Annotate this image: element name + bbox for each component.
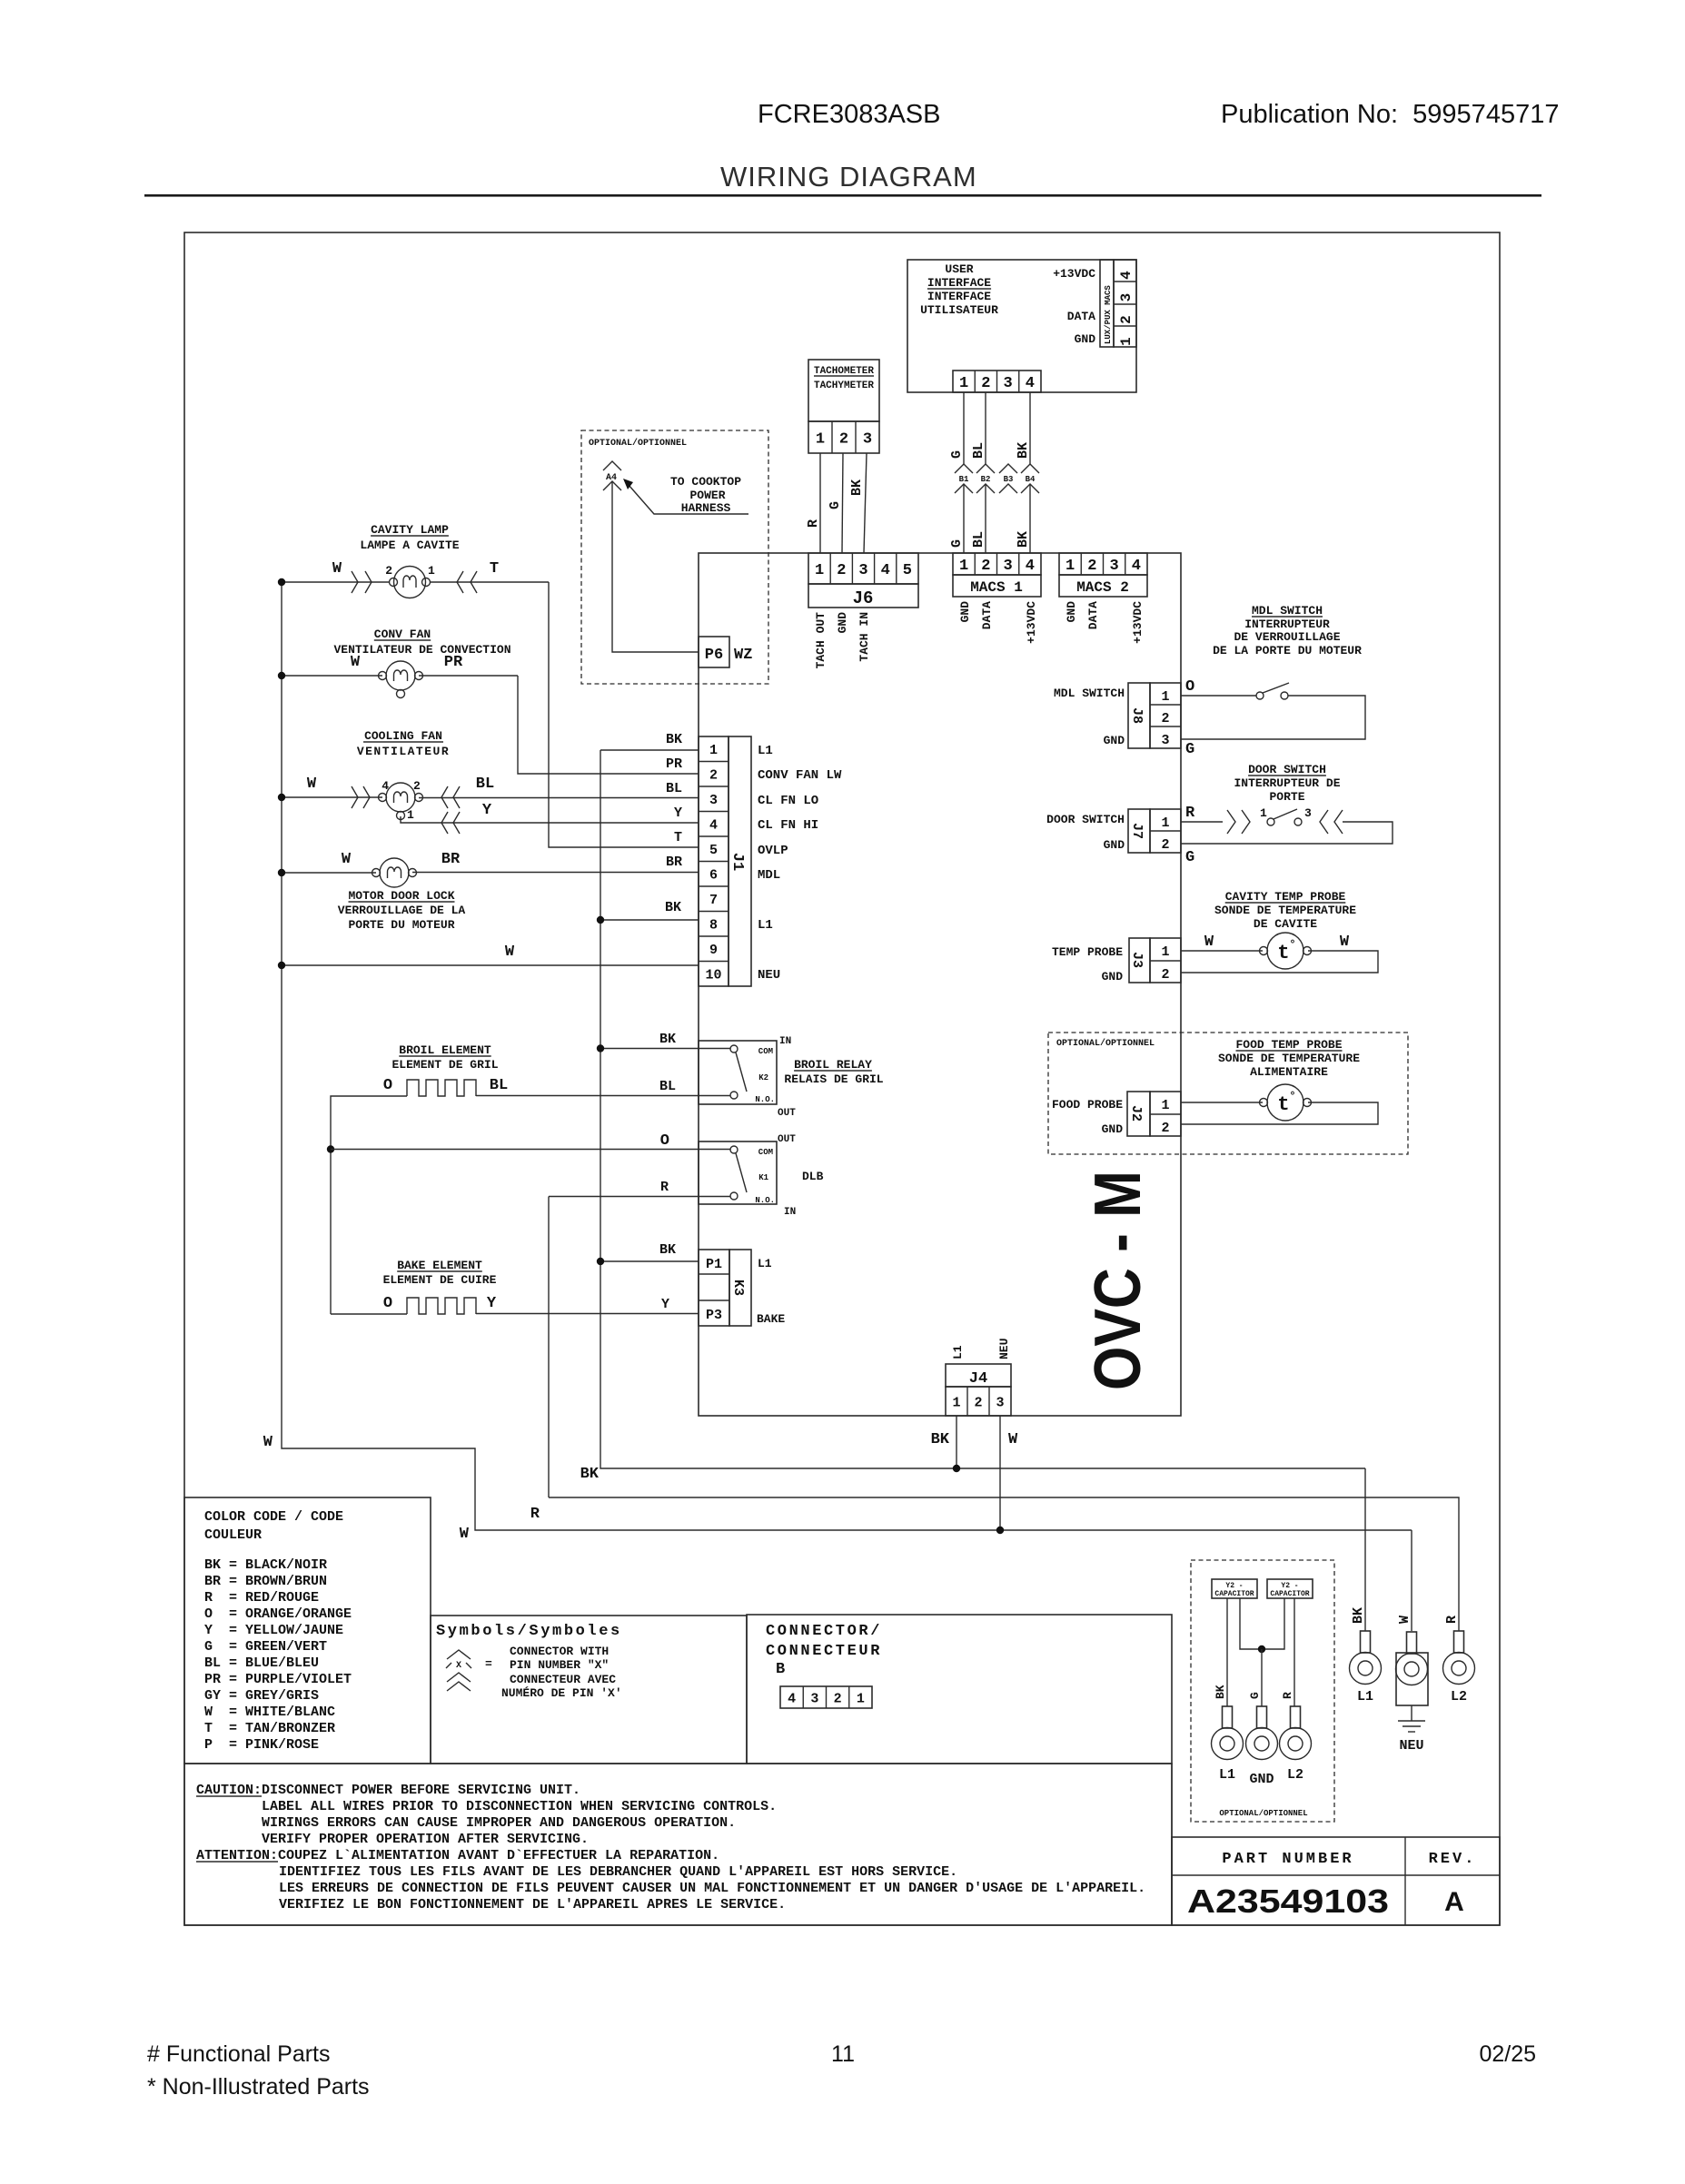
- svg-text:COOLING FAN: COOLING FAN: [364, 729, 442, 743]
- svg-text:SONDE DE TEMPERATURE: SONDE DE TEMPERATURE: [1214, 904, 1356, 917]
- svg-text:5: 5: [903, 562, 912, 579]
- wire bake element left: [331, 1313, 407, 1315]
- connector chevrons on cavity lamp left: [352, 571, 358, 593]
- wire BK to MACS1 pin4: [1029, 484, 1031, 553]
- svg-text:LES ERREURS DE CONNECTION DE F: LES ERREURS DE CONNECTION DE FILS PEUVEN…: [279, 1881, 1145, 1896]
- svg-text:3: 3: [1110, 558, 1119, 575]
- svg-text:BROIL ELEMENT: BROIL ELEMENT: [399, 1043, 491, 1057]
- svg-text:PART NUMBER: PART NUMBER: [1222, 1851, 1353, 1868]
- leader arrow to cooktop harness: [629, 485, 748, 514]
- svg-text:W: W: [1204, 934, 1214, 951]
- svg-text:O: O: [1185, 678, 1194, 696]
- svg-text:A: A: [1444, 1887, 1464, 1917]
- svg-text:BR = BROWN/BRUN: BR = BROWN/BRUN: [204, 1574, 327, 1589]
- svg-text:W: W: [307, 776, 317, 793]
- svg-text:+13VDC: +13VDC: [1131, 601, 1145, 644]
- svg-text:1: 1: [1161, 689, 1169, 705]
- svg-text:2: 2: [1161, 1121, 1169, 1136]
- conv fan circuit wire: [282, 675, 382, 677]
- svg-text:4: 4: [1026, 558, 1035, 575]
- svg-text:3: 3: [996, 1395, 1004, 1410]
- svg-text:B: B: [776, 1661, 785, 1678]
- svg-text:BL: BL: [971, 531, 986, 548]
- node junction W bus J4: [996, 1527, 1004, 1534]
- svg-text:BL: BL: [971, 442, 986, 459]
- caution box: [184, 1764, 1172, 1925]
- svg-text:P1: P1: [706, 1257, 722, 1272]
- connector MACS 2: [1059, 553, 1147, 575]
- svg-text:R: R: [530, 1506, 540, 1523]
- connector chevrons on cavity lamp right: [457, 571, 463, 593]
- svg-text:L1: L1: [951, 1345, 965, 1359]
- svg-text:L1: L1: [1219, 1767, 1235, 1783]
- svg-text:1: 1: [1161, 815, 1169, 831]
- svg-text:6: 6: [709, 868, 718, 884]
- svg-text:G: G: [1185, 741, 1194, 758]
- svg-text:2: 2: [839, 431, 848, 449]
- wire BK bus down to L1 terminal: [1364, 1468, 1366, 1631]
- svg-text:4: 4: [1132, 558, 1141, 575]
- svg-text:O = ORANGE/ORANGE: O = ORANGE/ORANGE: [204, 1606, 352, 1622]
- svg-text:B2: B2: [981, 475, 991, 484]
- svg-text:W: W: [1008, 1431, 1018, 1448]
- svg-text:W: W: [332, 560, 342, 578]
- svg-text:W: W: [460, 1526, 470, 1543]
- svg-text:OVC - M: OVC - M: [1082, 1171, 1155, 1390]
- svg-text:4: 4: [1026, 375, 1035, 392]
- svg-text:DE CAVITE: DE CAVITE: [1254, 917, 1317, 931]
- svg-text:MDL SWITCH: MDL SWITCH: [1252, 604, 1323, 618]
- svg-text:NUMÉRO DE PIN 'X': NUMÉRO DE PIN 'X': [501, 1686, 622, 1700]
- connector J8: [1128, 683, 1150, 748]
- wire BL from UI pin2: [985, 392, 986, 464]
- svg-text:COM: COM: [758, 1148, 773, 1157]
- svg-text:BL = BLUE/BLEU: BL = BLUE/BLEU: [204, 1655, 319, 1671]
- svg-text:11: 11: [831, 2041, 855, 2067]
- svg-text:3: 3: [858, 562, 867, 579]
- svg-text:T = TAN/BRONZER: T = TAN/BRONZER: [204, 1721, 335, 1736]
- svg-text:Y: Y: [674, 805, 682, 821]
- control board OVC-M outline: [699, 553, 1181, 1416]
- terminal GND optional: [1257, 1706, 1267, 1728]
- wire G from UI pin1: [963, 392, 965, 464]
- svg-text:GY = GREY/GRIS: GY = GREY/GRIS: [204, 1688, 319, 1704]
- node junction BK K2: [597, 1044, 604, 1052]
- svg-text:BAKE: BAKE: [757, 1312, 785, 1326]
- wire O to K1 COM: [331, 1149, 730, 1151]
- svg-text:5: 5: [709, 843, 718, 858]
- svg-text:J8: J8: [1129, 707, 1145, 724]
- svg-text:1: 1: [1161, 944, 1169, 960]
- wire R bus down to L2 terminal: [549, 1497, 1459, 1631]
- svg-text:MOTOR DOOR LOCK: MOTOR DOOR LOCK: [348, 889, 454, 903]
- svg-text:HARNESS: HARNESS: [681, 501, 731, 515]
- svg-text:PORTE DU MOTEUR: PORTE DU MOTEUR: [348, 918, 454, 932]
- wire from A4 to P6: [612, 481, 699, 652]
- svg-text:J4: J4: [969, 1370, 987, 1388]
- connector LUX/PUX MACS on user interface: [1100, 260, 1114, 347]
- black BK bus wire: [600, 750, 1365, 1468]
- svg-text:G = GREEN/VERT: G = GREEN/VERT: [204, 1639, 327, 1655]
- svg-text:2: 2: [981, 558, 990, 575]
- wire W bus to J1 pin10: [282, 964, 699, 966]
- svg-text:K1: K1: [758, 1173, 768, 1182]
- svg-text:CL FN LO: CL FN LO: [758, 794, 818, 808]
- svg-text:CONV FAN LW: CONV FAN LW: [758, 768, 842, 783]
- svg-text:N.O.: N.O.: [755, 1196, 775, 1205]
- svg-text:NEU: NEU: [1399, 1738, 1423, 1754]
- svg-text:L1: L1: [758, 918, 773, 933]
- svg-text:OPTIONAL/OPTIONNEL: OPTIONAL/OPTIONNEL: [1219, 1809, 1307, 1818]
- optional cooktop harness dashed box: [581, 430, 768, 684]
- svg-text:BK: BK: [659, 1242, 676, 1258]
- svg-text:BK: BK: [665, 900, 681, 915]
- wire BK bus to K3 P1: [600, 1260, 699, 1262]
- svg-text:2: 2: [1087, 558, 1096, 575]
- svg-text:8: 8: [709, 918, 718, 934]
- svg-text:1: 1: [816, 431, 825, 449]
- connector B3: [999, 464, 1017, 473]
- svg-text:VERIFY PROPER OPERATION AFTER: VERIFY PROPER OPERATION AFTER SERVICING.: [262, 1832, 589, 1847]
- svg-text:USER: USER: [945, 262, 973, 276]
- svg-text:GND: GND: [1249, 1772, 1274, 1787]
- svg-text:4: 4: [788, 1691, 796, 1706]
- svg-text:3: 3: [1004, 558, 1013, 575]
- svg-text:L1: L1: [1357, 1689, 1373, 1705]
- svg-text:3: 3: [1304, 806, 1312, 820]
- svg-text:ALIMENTAIRE: ALIMENTAIRE: [1250, 1065, 1328, 1079]
- svg-text:BL: BL: [490, 1077, 508, 1094]
- wire T cavity lamp to J1 pin5: [549, 582, 699, 847]
- terminal L2: [1454, 1631, 1464, 1653]
- svg-text:DATA: DATA: [1067, 310, 1095, 323]
- svg-text:°: °: [1289, 1090, 1295, 1102]
- svg-text:R = RED/ROUGE: R = RED/ROUGE: [204, 1590, 319, 1606]
- svg-text:J1: J1: [729, 853, 746, 871]
- wire capacitor1 to GND junction: [1240, 1598, 1284, 1649]
- svg-text:COULEUR: COULEUR: [204, 1527, 262, 1543]
- svg-text:GND: GND: [1102, 970, 1124, 983]
- user interface pin strip 1-4: [953, 371, 1041, 392]
- wire R to K1 N.O.: [548, 1197, 550, 1498]
- svg-text:INTERFACE: INTERFACE: [927, 276, 991, 290]
- svg-text:Y: Y: [661, 1297, 669, 1312]
- wire G tach pin2 to J6 pin2: [842, 453, 843, 553]
- svg-text:2: 2: [974, 1395, 982, 1410]
- connector J4: [946, 1364, 1011, 1387]
- svg-text:LABEL ALL WIRES PRIOR TO DISCO: LABEL ALL WIRES PRIOR TO DISCONNECTION W…: [262, 1799, 777, 1814]
- svg-text:DATA: DATA: [1086, 601, 1100, 629]
- svg-text:PORTE: PORTE: [1269, 790, 1304, 804]
- svg-text:DATA: DATA: [980, 601, 994, 629]
- svg-text:Y = YELLOW/JAUNE: Y = YELLOW/JAUNE: [204, 1623, 343, 1638]
- node junction door lock on W bus: [278, 869, 285, 876]
- cooling fan circuit wire: [282, 796, 382, 798]
- wire PR conv fan to J1 pin2: [518, 676, 699, 774]
- svg-text:NEU: NEU: [997, 1339, 1011, 1359]
- svg-text:R: R: [1444, 1616, 1460, 1624]
- svg-text:DE VERROUILLAGE: DE VERROUILLAGE: [1234, 630, 1340, 644]
- svg-text:G: G: [949, 450, 965, 459]
- connector B4: [1021, 464, 1039, 473]
- wire W bus down to NEU terminal: [1411, 1530, 1412, 1631]
- svg-text:ELEMENT DE CUIRE: ELEMENT DE CUIRE: [383, 1273, 497, 1287]
- svg-text:P = PINK/ROSE: P = PINK/ROSE: [204, 1737, 319, 1753]
- svg-text:TACH IN: TACH IN: [857, 612, 871, 662]
- svg-text:G: G: [949, 539, 965, 548]
- svg-text:BL: BL: [659, 1079, 676, 1094]
- svg-text:R: R: [1185, 805, 1195, 822]
- wire BK tach pin3 to J6 pin3: [864, 453, 867, 553]
- wire Y bake element to K3 P3: [476, 1313, 699, 1315]
- svg-text:B3: B3: [1004, 475, 1014, 484]
- svg-text:MDL SWITCH: MDL SWITCH: [1054, 687, 1125, 700]
- svg-text:9: 9: [709, 943, 718, 958]
- svg-text:BK: BK: [1016, 531, 1031, 548]
- svg-text:BK: BK: [1214, 1685, 1227, 1699]
- node junction BK bus J4: [953, 1465, 960, 1472]
- svg-text:INTERFACE: INTERFACE: [927, 290, 991, 303]
- svg-text:CONNECTOR/: CONNECTOR/: [766, 1623, 882, 1640]
- svg-text:O: O: [660, 1132, 669, 1150]
- title rule: [144, 194, 1541, 197]
- svg-text:VENTILATEUR: VENTILATEUR: [357, 745, 450, 758]
- svg-text:N.O.: N.O.: [755, 1095, 775, 1104]
- svg-text:1: 1: [1118, 337, 1135, 346]
- svg-text:MACS 1: MACS 1: [970, 579, 1023, 596]
- svg-text:Publication No: 5995745717: Publication No: 5995745717: [1221, 100, 1559, 129]
- svg-text:BROIL RELAY: BROIL RELAY: [794, 1058, 872, 1072]
- svg-text:WIRINGS ERRORS CAN CAUSE IMPRO: WIRINGS ERRORS CAN CAUSE IMPROPER AND DA…: [262, 1815, 736, 1831]
- svg-text:4: 4: [881, 562, 890, 579]
- relay K3 bake relay block: [699, 1250, 729, 1326]
- terminal NEU with ground: [1396, 1653, 1428, 1705]
- wire G to MACS1 pin1: [963, 484, 965, 553]
- connector J1: [699, 736, 729, 986]
- svg-text:COLOR CODE / CODE: COLOR CODE / CODE: [204, 1509, 343, 1525]
- svg-text:1: 1: [1066, 558, 1075, 575]
- node junction conv fan on W bus: [278, 672, 285, 679]
- svg-text:K2: K2: [758, 1073, 768, 1082]
- svg-text:L2: L2: [1451, 1689, 1467, 1705]
- svg-text:TO COOKTOP: TO COOKTOP: [670, 475, 741, 489]
- svg-text:BL: BL: [476, 776, 494, 793]
- svg-text:J3: J3: [1129, 952, 1145, 968]
- svg-text:FOOD PROBE: FOOD PROBE: [1052, 1098, 1123, 1112]
- svg-text:BK: BK: [1016, 442, 1031, 459]
- connector chevrons cooling fan right: [441, 786, 448, 808]
- svg-text:PR = PURPLE/VIOLET: PR = PURPLE/VIOLET: [204, 1672, 352, 1687]
- svg-text:2: 2: [413, 779, 421, 793]
- svg-text:VERIFIEZ LE BON FONCTIONNEMENT: VERIFIEZ LE BON FONCTIONNEMENT DE L'APPA…: [279, 1897, 786, 1912]
- svg-text:CAPACITOR: CAPACITOR: [1214, 1590, 1254, 1598]
- svg-text:°: °: [1289, 938, 1295, 951]
- svg-text:L2: L2: [1287, 1767, 1303, 1783]
- svg-text:G: G: [828, 501, 843, 509]
- svg-text:1: 1: [709, 743, 718, 758]
- svg-text:CONNECTOR WITH: CONNECTOR WITH: [510, 1645, 609, 1658]
- svg-text:W: W: [505, 944, 515, 961]
- svg-text:O: O: [383, 1077, 392, 1094]
- connector P6: [699, 637, 729, 667]
- svg-text:L1: L1: [758, 744, 773, 758]
- svg-text:LUX/PUX MACS: LUX/PUX MACS: [1104, 285, 1113, 344]
- svg-text:CONNECTEUR: CONNECTEUR: [766, 1643, 882, 1660]
- connector J6: [808, 553, 918, 584]
- svg-text:GND: GND: [1104, 838, 1125, 852]
- svg-text:VERROUILLAGE DE LA: VERROUILLAGE DE LA: [338, 904, 466, 917]
- svg-text:BR: BR: [441, 851, 461, 868]
- node junction capacitor GND: [1258, 1645, 1265, 1653]
- svg-text:OUT: OUT: [778, 1134, 796, 1145]
- connector A4: [603, 461, 621, 470]
- svg-text:R: R: [1281, 1692, 1294, 1699]
- svg-text:BK: BK: [666, 732, 682, 747]
- svg-text:2: 2: [981, 375, 990, 392]
- svg-text:J6: J6: [853, 588, 874, 608]
- svg-text:P6: P6: [705, 647, 723, 664]
- terminal L1: [1361, 1631, 1371, 1653]
- bake element symbol: [407, 1298, 476, 1314]
- connector chevrons cooling fan left: [352, 786, 358, 808]
- svg-text:OVLP: OVLP: [758, 844, 788, 858]
- symbol connector with pin number X: [447, 1650, 471, 1659]
- svg-text:SONDE DE TEMPERATURE: SONDE DE TEMPERATURE: [1218, 1052, 1360, 1065]
- svg-text:BK: BK: [1351, 1607, 1366, 1624]
- capacitor Y2 number 2: [1267, 1579, 1313, 1598]
- svg-text:DOOR SWITCH: DOOR SWITCH: [1248, 763, 1326, 776]
- svg-text:10: 10: [705, 968, 721, 983]
- wire broil element to K2 N.O.: [331, 1096, 407, 1314]
- svg-text:4: 4: [709, 818, 718, 834]
- svg-text:BL: BL: [666, 781, 682, 796]
- svg-text:OPTIONAL/OPTIONNEL: OPTIONAL/OPTIONNEL: [1056, 1038, 1155, 1049]
- svg-text:W = WHITE/BLANC: W = WHITE/BLANC: [204, 1705, 335, 1720]
- svg-text:CAPACITOR: CAPACITOR: [1270, 1590, 1309, 1598]
- svg-text:INTERRUPTEUR: INTERRUPTEUR: [1244, 618, 1330, 631]
- connector chevrons on Y wire: [441, 812, 448, 834]
- node junction W bus pin10: [278, 962, 285, 969]
- svg-text:GND: GND: [836, 612, 849, 634]
- motor door lock symbol: [380, 858, 409, 887]
- svg-text:IDENTIFIEZ TOUS LES FILS AVANT: IDENTIFIEZ TOUS LES FILS AVANT DE LES DE…: [279, 1864, 957, 1880]
- svg-text:CONNECTEUR AVEC: CONNECTEUR AVEC: [510, 1673, 616, 1686]
- svg-text:G: G: [1248, 1692, 1262, 1699]
- svg-text:WIRING DIAGRAM: WIRING DIAGRAM: [720, 161, 977, 193]
- svg-text:3: 3: [1118, 293, 1135, 302]
- cavity temp probe circuit: [1181, 950, 1263, 952]
- svg-text:O: O: [383, 1295, 392, 1312]
- wire BK to J1 pin1: [600, 749, 699, 751]
- svg-text:P3: P3: [706, 1308, 722, 1323]
- svg-text:BAKE ELEMENT: BAKE ELEMENT: [397, 1259, 482, 1272]
- svg-text:BK = BLACK/NOIR: BK = BLACK/NOIR: [204, 1557, 327, 1573]
- svg-text:NEU: NEU: [758, 968, 780, 983]
- svg-text:* Non-Illustrated Parts: * Non-Illustrated Parts: [147, 2074, 370, 2100]
- svg-text:BK: BK: [849, 479, 865, 496]
- svg-text:+13VDC: +13VDC: [1053, 267, 1095, 281]
- user interface box: [907, 260, 1136, 392]
- wire BK capacitor1 to L1 ring: [1226, 1598, 1228, 1706]
- svg-text:IN: IN: [784, 1207, 796, 1218]
- svg-text:CONV FAN: CONV FAN: [374, 628, 431, 641]
- neutral W bus wire: [282, 582, 1412, 1530]
- connector J3: [1129, 938, 1150, 983]
- capacitor Y2 number 1: [1212, 1579, 1257, 1598]
- svg-text:3: 3: [863, 431, 872, 449]
- svg-text:B4: B4: [1026, 475, 1036, 484]
- node junction cooling fan on W bus: [278, 794, 285, 801]
- connector J7: [1128, 809, 1150, 853]
- svg-text:Y2 -: Y2 -: [1225, 1582, 1243, 1590]
- connector MACS 1: [953, 553, 1041, 575]
- svg-text:W: W: [1397, 1616, 1412, 1624]
- svg-text:GND: GND: [958, 601, 972, 623]
- svg-text:R: R: [660, 1180, 669, 1195]
- svg-text:1: 1: [959, 375, 968, 392]
- svg-text:B1: B1: [959, 475, 969, 484]
- svg-text:# Functional Parts: # Functional Parts: [147, 2041, 331, 2067]
- svg-text:LAMPE A CAVITE: LAMPE A CAVITE: [360, 539, 459, 552]
- svg-text:R: R: [806, 519, 821, 528]
- svg-text:2: 2: [834, 1691, 842, 1706]
- svg-text:COM: COM: [758, 1047, 773, 1056]
- svg-text:2: 2: [1161, 967, 1169, 983]
- node junction cavity lamp on W bus: [278, 578, 285, 586]
- svg-text:PR: PR: [444, 654, 463, 671]
- svg-text:3: 3: [1161, 733, 1169, 748]
- symbols box: [431, 1616, 747, 1764]
- svg-text:OPTIONAL/OPTIONNEL: OPTIONAL/OPTIONNEL: [589, 438, 687, 449]
- wire W J4 pin3 to bus: [999, 1416, 1001, 1530]
- svg-text:7: 7: [709, 893, 718, 908]
- svg-text:T: T: [674, 830, 682, 845]
- svg-text:CAVITY LAMP: CAVITY LAMP: [371, 523, 449, 537]
- connector B box: [747, 1615, 1172, 1764]
- svg-text:G: G: [1185, 849, 1194, 866]
- cavity lamp symbol: [394, 567, 426, 598]
- terminal L2 optional: [1291, 1706, 1301, 1728]
- svg-text:MDL: MDL: [758, 868, 780, 883]
- switch door circuit: [1181, 821, 1223, 823]
- svg-text:COUPEZ L`ALIMENTATION AVANT D`: COUPEZ L`ALIMENTATION AVANT D`EFFECTUER …: [278, 1848, 719, 1863]
- wire BK from UI pin4: [1029, 392, 1031, 464]
- svg-text:DE LA PORTE DU MOTEUR: DE LA PORTE DU MOTEUR: [1213, 644, 1362, 657]
- connector B1: [955, 464, 973, 473]
- svg-text:02/25: 02/25: [1479, 2041, 1536, 2067]
- wire G junction to GND ring: [1261, 1649, 1263, 1706]
- svg-text:MACS 2: MACS 2: [1076, 579, 1129, 596]
- motor door lock circuit wire: [282, 872, 376, 874]
- svg-text:4: 4: [1118, 271, 1135, 280]
- svg-text:BK: BK: [659, 1032, 676, 1047]
- svg-text:1: 1: [959, 558, 968, 575]
- svg-text:UTILISATEUR: UTILISATEUR: [920, 303, 998, 317]
- svg-text:W: W: [263, 1434, 273, 1451]
- svg-text:2: 2: [1118, 315, 1135, 324]
- svg-text:Y: Y: [482, 802, 492, 819]
- optional food probe dashed box: [1048, 1033, 1408, 1154]
- svg-text:DLB: DLB: [802, 1170, 824, 1183]
- svg-text:GND: GND: [1065, 601, 1078, 623]
- svg-text:GND: GND: [1104, 734, 1125, 747]
- node junction BK K3: [597, 1258, 604, 1265]
- svg-text:X: X: [456, 1661, 461, 1671]
- motor conv fan: [386, 661, 415, 690]
- svg-text:2: 2: [1161, 711, 1169, 726]
- svg-text:1: 1: [1260, 806, 1267, 820]
- svg-text:FCRE3083ASB: FCRE3083ASB: [758, 100, 941, 129]
